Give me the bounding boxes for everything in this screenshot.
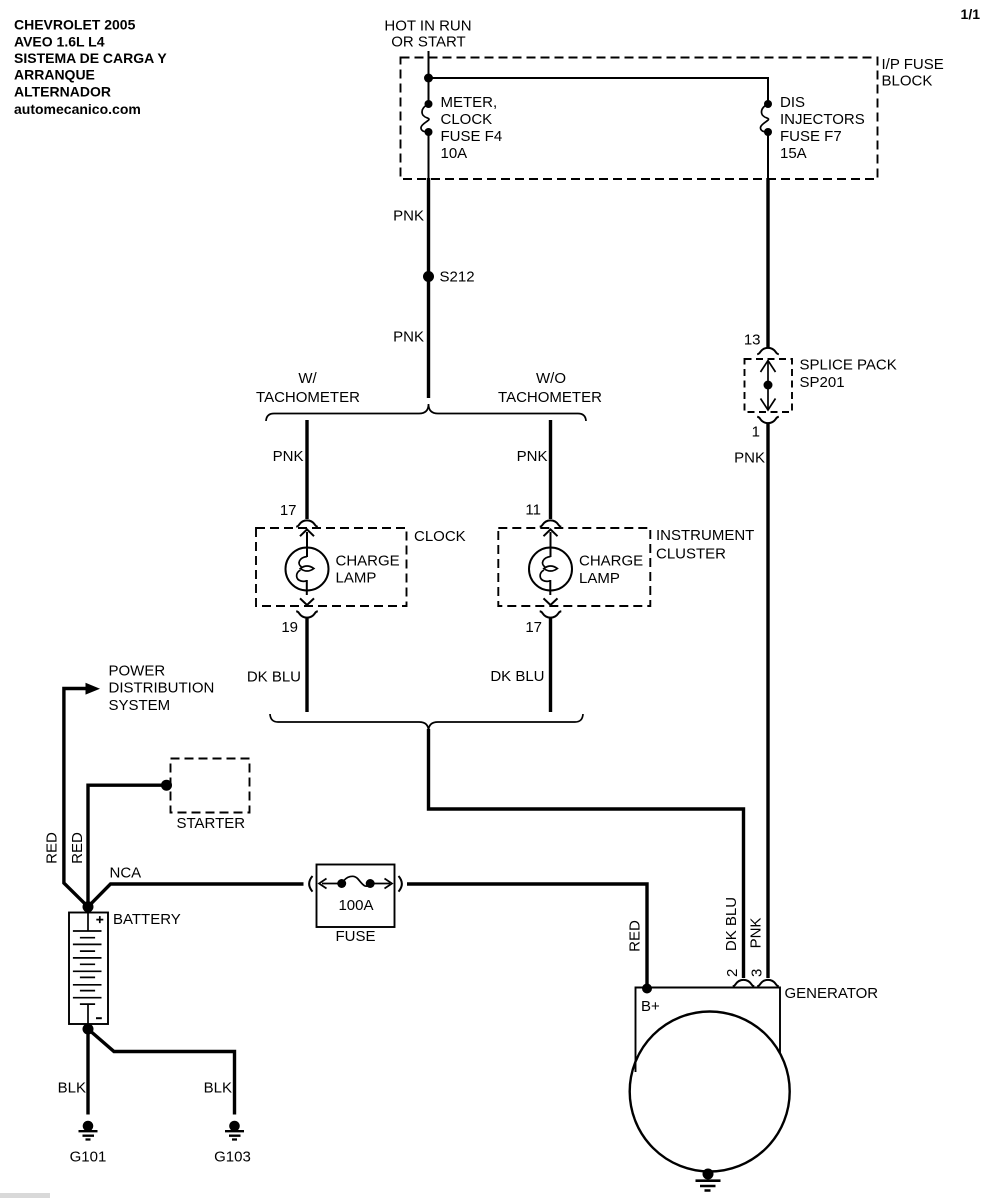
svg-text:13: 13 <box>744 332 761 349</box>
svg-text:RED: RED <box>69 832 86 864</box>
wire DK BLU to generator <box>429 729 744 978</box>
watermark box <box>0 1193 50 1198</box>
megafuse box <box>317 865 395 928</box>
svg-text:NCA: NCA <box>110 865 142 882</box>
svg-text:17: 17 <box>525 619 542 636</box>
svg-text:PNK: PNK <box>393 208 424 225</box>
svg-text:19: 19 <box>281 619 298 636</box>
svg-text:CLOCK: CLOCK <box>414 528 466 545</box>
megafuse connector right <box>399 876 402 892</box>
label battery plus <box>96 916 103 923</box>
svg-text:100A: 100A <box>338 897 373 914</box>
charge lamp L1 <box>286 529 329 605</box>
fuse F7 <box>760 100 772 136</box>
svg-text:PNK: PNK <box>393 329 424 346</box>
node starter terminal <box>161 780 172 791</box>
svg-text:PNK: PNK <box>517 448 548 465</box>
wire NCA megafuse to generator <box>407 884 647 988</box>
megafuse connector left <box>309 876 312 892</box>
generator case ground <box>696 1169 721 1191</box>
wire ignition feed <box>428 51 430 104</box>
label battery minus <box>96 1017 102 1019</box>
wire NCA battery to megafuse <box>88 884 304 907</box>
node battery positive junction <box>83 901 94 912</box>
connector pin 1 <box>757 417 779 423</box>
instrument cluster box <box>498 528 650 606</box>
svg-text:BATTERY: BATTERY <box>113 911 181 928</box>
charge lamp L2 <box>529 529 572 605</box>
wire DK BLU left <box>305 619 308 713</box>
merge brace <box>270 714 583 731</box>
connector pin 17b <box>540 611 562 617</box>
I/P fuse block box <box>401 58 878 180</box>
svg-text:G103: G103 <box>214 1149 251 1166</box>
ground G101 <box>79 1121 98 1140</box>
wire RED to power distribution <box>64 689 88 907</box>
connector pin 11 <box>540 520 562 526</box>
svg-text:STARTER: STARTER <box>177 815 246 832</box>
fuse F4 <box>421 100 433 136</box>
svg-text:FUSE: FUSE <box>335 928 375 945</box>
wire PNK w/ tachometer <box>305 420 308 519</box>
splice pack internals <box>761 361 776 411</box>
svg-text:GENERATOR: GENERATOR <box>785 985 879 1002</box>
node generator B+ <box>642 984 652 994</box>
svg-text:2: 2 <box>724 969 741 977</box>
svg-text:PNK: PNK <box>747 918 764 949</box>
svg-text:BLK: BLK <box>58 1080 86 1097</box>
svg-text:DK BLU: DK BLU <box>490 668 544 685</box>
generator circle <box>630 1012 790 1172</box>
svg-text:PNK: PNK <box>273 448 304 465</box>
connector pin 3 <box>757 980 779 986</box>
wire PNK from fuse F4 <box>428 132 430 179</box>
svg-text:B+: B+ <box>641 998 660 1015</box>
battery <box>69 913 108 1025</box>
svg-text:G101: G101 <box>70 1149 107 1166</box>
connector pin 13 <box>757 348 779 354</box>
svg-text:DK BLU: DK BLU <box>723 897 740 951</box>
svg-text:RED: RED <box>626 920 643 952</box>
svg-text:1/1: 1/1 <box>961 6 981 22</box>
wire PNK to generator <box>766 424 769 978</box>
connector pin 2 <box>733 980 755 986</box>
svg-text:11: 11 <box>525 502 541 519</box>
svg-text:3: 3 <box>749 969 766 977</box>
wire BLK to G103 <box>88 1029 235 1115</box>
power distribution arrow <box>86 683 101 695</box>
generator box <box>636 988 781 1073</box>
svg-text:HOT IN RUNOR START: HOT IN RUNOR START <box>384 17 471 50</box>
svg-text:17: 17 <box>280 502 297 519</box>
ground G103 <box>225 1121 244 1140</box>
svg-text:1: 1 <box>752 423 760 440</box>
wire PNK w/o tachometer <box>549 420 552 519</box>
wire PNK from fuse F7 <box>767 132 769 179</box>
wire jumper to fuse F7 <box>429 78 769 104</box>
starter box <box>171 759 250 813</box>
svg-text:S212: S212 <box>440 269 475 286</box>
svg-text:DK BLU: DK BLU <box>247 669 301 686</box>
wire RED to starter <box>88 785 165 905</box>
node junction feed <box>424 74 433 83</box>
wire BLK to G101 <box>86 1024 89 1115</box>
svg-text:BLK: BLK <box>204 1080 232 1097</box>
brace split <box>266 404 586 421</box>
svg-text:PNK: PNK <box>734 450 765 467</box>
node battery negative <box>83 1024 94 1035</box>
megafuse element <box>319 876 392 888</box>
connector pin 19 <box>296 611 318 617</box>
wire DK BLU right <box>549 619 552 713</box>
clock box <box>256 528 407 606</box>
splice pack box <box>745 359 793 412</box>
connector pin 17 <box>296 520 318 526</box>
splice S212 <box>423 271 434 282</box>
svg-text:RED: RED <box>44 832 61 864</box>
